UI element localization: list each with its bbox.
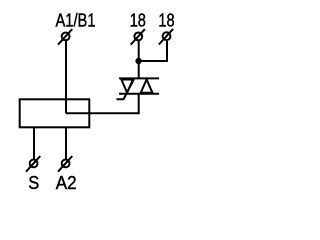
terminal 18 left <box>131 29 145 45</box>
terminal S <box>26 156 40 172</box>
terminal 18 right <box>159 29 173 45</box>
coil box <box>20 99 90 127</box>
wire internal junction to triac <box>66 94 139 113</box>
terminal A2 <box>58 156 72 172</box>
svg-text:18: 18 <box>158 11 174 31</box>
wire 18 right over to junction <box>139 41 167 61</box>
junction node <box>135 58 141 64</box>
triac <box>117 78 160 99</box>
wire A1/B1 down into box <box>65 41 67 113</box>
svg-text:A1/B1: A1/B1 <box>56 11 96 31</box>
svg-text:18: 18 <box>130 11 146 31</box>
terminal A1/B1 <box>58 29 72 45</box>
svg-text:A2: A2 <box>56 173 77 193</box>
wire 18 left down to triac <box>138 41 140 78</box>
svg-text:S: S <box>28 173 39 193</box>
wire A2 <box>65 127 67 159</box>
wire S <box>33 127 35 159</box>
